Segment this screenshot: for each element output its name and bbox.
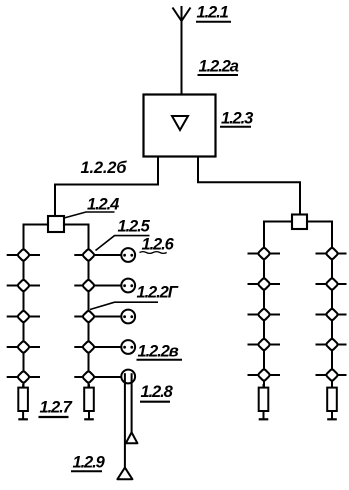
tap coupler riser4 row 3: [326, 308, 339, 321]
splitter box right: [292, 215, 307, 230]
underline for label 1.2.2в: [137, 359, 183, 361]
wire: antenna feeder cable (poz.1.2.2а): [181, 21, 183, 95]
wire: riser2 stub left row 3: [74, 316, 88, 318]
subscriber socket (poz.1.2.6) row 2: [121, 279, 135, 293]
terminating resistor (poz.1.2.7) riser 1: [18, 384, 28, 419]
wire: riser1 tap stubs row 2: [7, 285, 40, 287]
svg-text:1.2.9: 1.2.9: [73, 454, 106, 472]
wire: riser4 tap stubs row 1: [316, 253, 347, 255]
svg-text:1.2.2б: 1.2.2б: [81, 159, 128, 177]
wire: riser4 tap stubs row 3: [316, 314, 347, 316]
tap coupler riser3 row 1: [258, 247, 271, 260]
wire: riser1 tap stubs row 1: [7, 254, 40, 256]
tap coupler riser1 row 2: [17, 279, 30, 292]
svg-text:1.2.8: 1.2.8: [141, 383, 174, 401]
wire: riser 2 trunk: [88, 254, 90, 387]
plug symbol left (poz.1.2.9): [117, 468, 132, 480]
label 1.2.4: [87, 196, 119, 214]
wire: right trunk line: [198, 157, 300, 215]
label 1.2.7: [40, 399, 73, 417]
wire: riser4 tap stubs row 5: [316, 374, 347, 376]
wire: riser2 stub to socket row 2: [89, 285, 122, 287]
tap coupler riser2 row 2: [82, 279, 95, 292]
label 1.2.5: [118, 218, 151, 236]
wire: subscriber cord left: [124, 380, 126, 468]
tap coupler riser2 row 4: [82, 341, 95, 354]
svg-text:1.2.7: 1.2.7: [40, 399, 73, 417]
label 1.2.2в: [138, 343, 179, 361]
terminating resistor riser 4: [327, 384, 337, 419]
splitter box (poz.1.2.4) left: [48, 216, 64, 232]
svg-text:1.2.2в: 1.2.2в: [138, 343, 179, 361]
tap coupler riser2 row 3: [82, 310, 95, 323]
amplifier U1 triangle symbol: [172, 116, 188, 130]
tap coupler riser1 row 4: [17, 341, 30, 354]
label 1.2.1: [197, 4, 229, 22]
tap coupler riser1 row 3: [17, 310, 30, 323]
tap coupler riser3 row 5: [258, 369, 271, 382]
tap coupler riser2 row 1: [82, 249, 95, 262]
label 1.2.2б: [81, 159, 128, 177]
underline for label 1.2.3: [220, 126, 251, 128]
leader line + underline for label 1.2.4: [64, 212, 115, 218]
wire: riser3 tap stubs row 1: [248, 253, 281, 255]
wire: riser3 tap stubs row 5: [248, 374, 281, 376]
label 1.2.3: [221, 110, 253, 128]
wire: riser2 stub left row 1: [74, 254, 88, 256]
leader line + underline for label 1.2.2Г: [90, 302, 158, 309]
tap coupler riser4 row 4: [326, 338, 339, 351]
svg-text:1.2.3: 1.2.3: [221, 110, 253, 128]
wire: riser2 stub left row 4: [74, 346, 88, 348]
tap coupler riser1 row 5: [17, 371, 30, 384]
plug symbol right (poz.1.2.9): [126, 432, 138, 443]
subscriber socket (poz.1.2.6) row 1: [121, 248, 135, 262]
wire: right splitter to riser 3: [264, 222, 292, 254]
subscriber socket (poz.1.2.6) row 3: [121, 310, 135, 324]
wire: riser2 stub left row 2: [74, 285, 88, 287]
svg-text:1.2.5: 1.2.5: [118, 218, 151, 236]
wire: riser3 tap stubs row 3: [248, 314, 281, 316]
wire: left splitter to riser 1: [24, 225, 49, 255]
plug prongs in socket 1.2.8: [125, 373, 132, 380]
svg-text:1.2.6: 1.2.6: [142, 236, 175, 254]
terminating resistor riser 3: [259, 384, 269, 419]
wire: right splitter to riser 4: [307, 222, 332, 254]
underline for label 1.2.7: [39, 416, 69, 418]
leader line + underline for label 1.2.5: [96, 236, 150, 251]
wire: subscriber cord right: [131, 380, 133, 432]
tap coupler riser1 row 1: [17, 249, 30, 262]
label 1.2.9: [73, 454, 106, 472]
label 1.2.2а: [199, 58, 239, 76]
label 1.2.6: [142, 236, 175, 254]
subscriber socket (poz.1.2.6) row 4: [121, 340, 135, 354]
svg-text:1.2.2а: 1.2.2а: [199, 58, 239, 76]
subscriber socket with plug (poz.1.2.8): [121, 370, 135, 384]
wire: riser 3 trunk: [263, 253, 265, 387]
svg-text:1.2.1: 1.2.1: [197, 4, 229, 22]
wire: riser4 tap stubs row 2: [316, 283, 347, 285]
wire: riser2 stub to socket row 4: [89, 346, 122, 348]
tap coupler riser3 row 4: [258, 338, 271, 351]
wire: riser2 stub to socket row 3: [89, 316, 122, 318]
wire: riser1 tap stubs row 3: [7, 316, 40, 318]
wire: riser3 tap stubs row 4: [248, 344, 281, 346]
underline for label 1.2.9: [71, 470, 102, 472]
amplifier U1 (poz.1.2.3) box: [144, 95, 216, 157]
wire: riser1 tap stubs row 4: [7, 346, 40, 348]
tap coupler riser3 row 3: [258, 308, 271, 321]
underline for label 1.2.2а: [198, 74, 239, 76]
tap coupler riser4 row 5: [326, 369, 339, 382]
wire: riser 4 trunk: [331, 253, 333, 387]
terminating resistor riser 2: [84, 384, 94, 419]
tap coupler riser3 row 2: [258, 278, 271, 291]
wire: riser 1 trunk: [23, 254, 25, 387]
wire: riser2 stub to socket row 1: [89, 254, 122, 256]
wire: left splitter to riser 2: [64, 225, 89, 255]
tap coupler riser4 row 2: [326, 278, 339, 291]
underline for label 1.2.1: [196, 21, 231, 23]
svg-text:1.2.4: 1.2.4: [87, 196, 119, 214]
svg-text:1.2.2Г: 1.2.2Г: [137, 284, 179, 302]
wire: riser4 tap stubs row 4: [316, 344, 347, 346]
tap coupler riser2 row 5: [82, 371, 95, 384]
antenna W1 (poz.1.2.1): [173, 6, 191, 21]
label 1.2.8: [141, 383, 174, 401]
underline for label 1.2.8: [140, 401, 170, 403]
tap coupler riser4 row 1: [326, 247, 339, 260]
wire: riser1 tap stubs row 5: [7, 376, 40, 378]
wavy underline for label 1.2.6: [140, 252, 167, 254]
wire: riser2 stub left row 5: [74, 376, 88, 378]
wire: riser2 stub to socket row 5: [89, 376, 122, 378]
wire: left trunk line (poz.1.2.2б): [55, 157, 158, 217]
label 1.2.2Г: [137, 284, 179, 302]
wire: riser3 tap stubs row 2: [248, 283, 281, 285]
